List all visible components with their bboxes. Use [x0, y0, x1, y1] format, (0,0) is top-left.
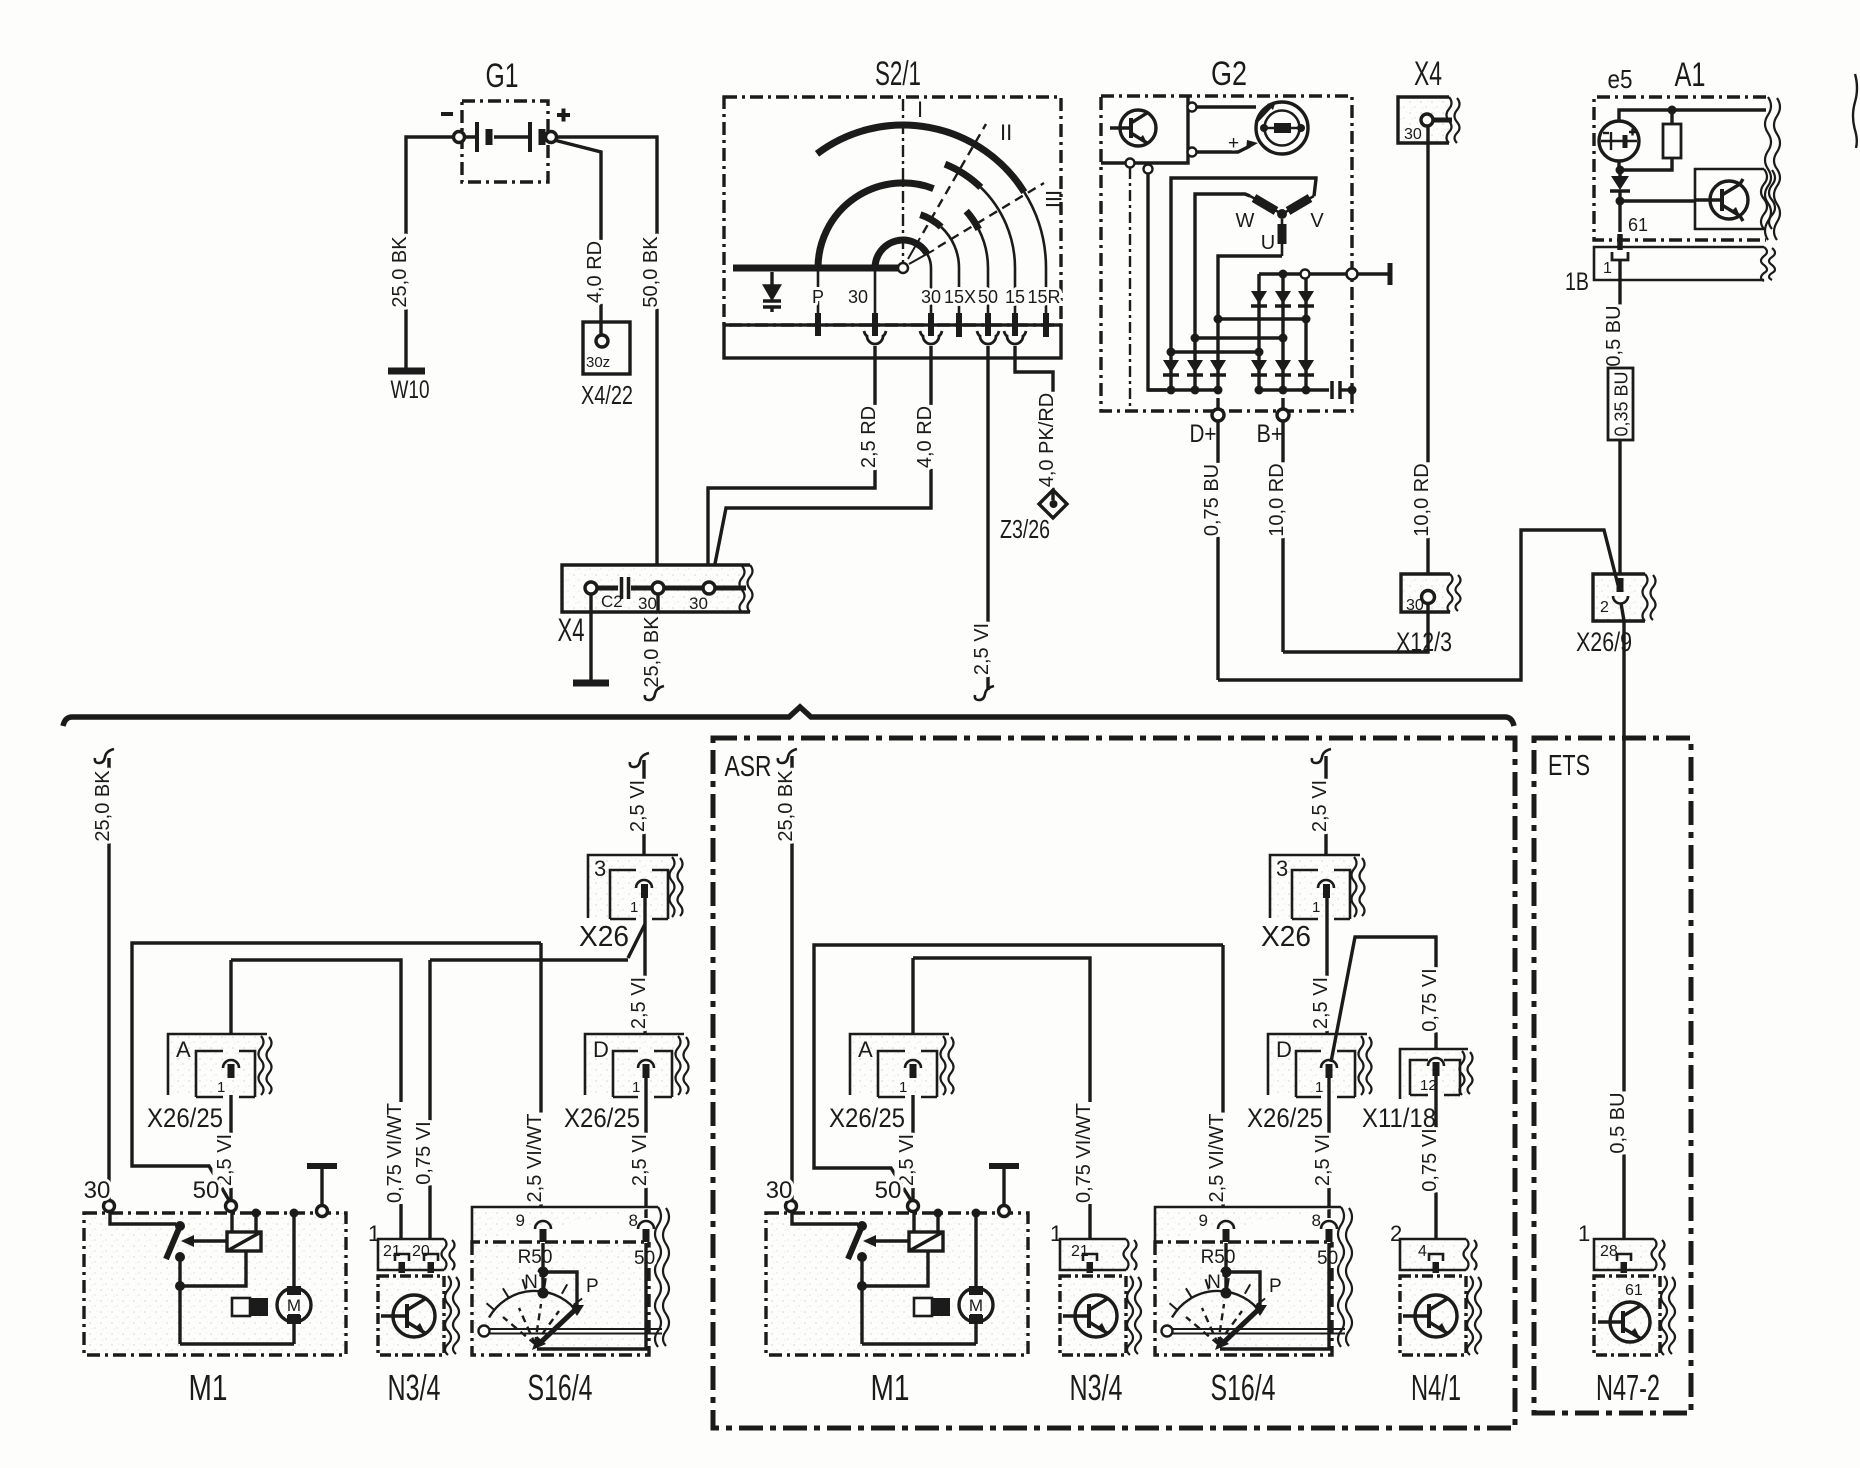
connector X12/3 torn edge: [1448, 574, 1461, 612]
connector X26/25-A pin 1: [223, 1060, 239, 1068]
svg-text:X26: X26: [579, 921, 629, 953]
svg-text:III: III: [1041, 190, 1066, 208]
wire label 4,0 RD: [583, 240, 606, 304]
svg-text:2,5 VI: 2,5 VI: [628, 977, 650, 1029]
wire label 0,75 VI: [412, 1120, 435, 1185]
svg-text:30z: 30z: [586, 354, 610, 371]
boxed wire label 0,35 BU: [1608, 368, 1633, 440]
svg-text:A: A: [858, 1037, 873, 1062]
rectifier bottom bus left (D+): [1148, 388, 1218, 391]
starter M1 asr ground stub: [1002, 1168, 1005, 1205]
stator winding W: [1250, 196, 1282, 214]
svg-text:12: 12: [1420, 1077, 1437, 1094]
rectifier bottom bus right (B+): [1259, 388, 1329, 391]
wire terminal to rotor top: [1197, 105, 1257, 108]
svg-text:0,75 VI: 0,75 VI: [1419, 968, 1441, 1031]
svg-text:S16/4: S16/4: [1211, 1367, 1276, 1408]
starter M1 ground terminal: [317, 1206, 328, 1217]
svg-text:D: D: [1276, 1037, 1292, 1062]
rotor G2 outer circle: [1256, 102, 1308, 154]
svg-text:15: 15: [1005, 287, 1025, 307]
svg-text:V: V: [1310, 210, 1324, 232]
connector X4 torn edge: [1447, 97, 1460, 143]
stator star point: [1277, 209, 1287, 219]
switch S2/1 arc r56 contact (15X): [920, 215, 941, 227]
switch S16/4 wire R50 to P contact: [543, 1272, 577, 1308]
wire U to rectifier col3: [1218, 256, 1282, 319]
rotor G2 inner circle: [1265, 111, 1300, 146]
connector X26/25-D torn edge: [676, 1036, 689, 1095]
starter M1 asr terminal 30: [786, 1201, 797, 1212]
svg-text:3: 3: [594, 856, 606, 881]
switch S16/4 gauge ticks: [487, 1278, 583, 1310]
svg-text:S16/4: S16/4: [528, 1367, 593, 1408]
bus X4 bar: [596, 586, 746, 591]
connector X26/9 torn edge: [1643, 574, 1656, 621]
svg-text:2,5 VI: 2,5 VI: [971, 623, 993, 675]
bus X4 box: [562, 565, 750, 612]
wire line1 asr right down to S16/4-9: [1221, 945, 1224, 1218]
switch S2/1 terminal P drop: [817, 268, 820, 318]
bus X4 terminal C2 ring: [585, 582, 597, 594]
wire line2a (X26/25-A to N3/4-21): [231, 960, 401, 1249]
switch S2/1 dash-dot box: [724, 97, 1061, 325]
connector X26/25-A asr box: [850, 1034, 943, 1095]
bus X4 torn edge: [740, 565, 753, 612]
wire 25,0 BK to M1-30 asr: [790, 756, 793, 1201]
svg-text:21: 21: [1071, 1243, 1089, 1260]
switch S2/1 arc r28 contact (30): [875, 240, 927, 268]
connector X26 asr box: [1270, 855, 1354, 918]
switch S16/4 asr pin row box: [1155, 1207, 1341, 1242]
svg-text:4,0 RD: 4,0 RD: [584, 241, 606, 303]
starter M1 asr motor wires: [974, 1213, 977, 1344]
terminal D+ ring: [1212, 409, 1224, 421]
connector X4/22 box: [583, 322, 630, 374]
switch S2/1 pivot: [898, 263, 908, 273]
wire label 0,75 VI lower: [1418, 1127, 1441, 1192]
svg-text:30: 30: [689, 594, 708, 613]
starter M1 bottom wire: [180, 1342, 294, 1345]
relay module N4/1 body box: [1400, 1276, 1466, 1355]
svg-text:30: 30: [848, 287, 868, 307]
svg-text:0,35 BU: 0,35 BU: [1612, 371, 1632, 436]
switch S16/4 asr needle: [1224, 1308, 1260, 1342]
wire label 0,75 VI/WT: [383, 1102, 406, 1204]
wire A1 pin down (0,5 BU): [1618, 260, 1621, 368]
switch S16/4 asr gauge dashes: [1186, 1304, 1242, 1344]
svg-text:X26/25: X26/25: [1247, 1103, 1323, 1133]
svg-text:2,5 VI: 2,5 VI: [1309, 780, 1331, 832]
wire X11/18 to N4/1 (0,75 VI): [1434, 1076, 1437, 1249]
page edge artifact top right: [1853, 74, 1857, 148]
connector X26 asr torn edge: [1352, 857, 1365, 917]
wire battery plus to X4/22 (4,0 RD): [554, 140, 601, 335]
stator winding U: [1281, 219, 1284, 256]
connector strip 1B box: [1594, 247, 1764, 280]
svg-text:G2: G2: [1211, 55, 1247, 93]
connector X4/22 terminal 30z: [596, 335, 608, 347]
connector X12/3 box: [1401, 574, 1450, 612]
switch S2/1 terminal labels: [812, 287, 1061, 307]
module N3/4 pin row box: [378, 1239, 444, 1270]
svg-text:50: 50: [978, 287, 998, 307]
switch S16/4 asr node R50: [1221, 1267, 1232, 1278]
switch S16/4 pin row box: [472, 1207, 658, 1242]
wire label 0,5 BU: [1606, 1091, 1629, 1154]
svg-text:M1: M1: [189, 1367, 228, 1408]
svg-text:8: 8: [1312, 1211, 1321, 1230]
wire X26/9 down to ETS: [1621, 603, 1624, 1089]
regulator output circle b: [1144, 165, 1153, 174]
starter M1 asr wire node to relay bottom: [862, 1251, 928, 1286]
svg-text:ETS: ETS: [1548, 750, 1590, 782]
svg-text:4,0 RD: 4,0 RD: [914, 406, 936, 468]
svg-text:3: 3: [1276, 856, 1288, 881]
switch S16/4 asr wire pin8 to bottom: [1220, 1243, 1329, 1349]
svg-text:2,5 VI: 2,5 VI: [629, 1134, 651, 1186]
svg-text:1: 1: [899, 1079, 907, 1096]
svg-text:C2: C2: [601, 592, 623, 611]
switch S2/1 arc r85 contact (50): [818, 183, 934, 268]
wire label 2,5 VI: [970, 622, 993, 676]
svg-text:2: 2: [1600, 599, 1609, 616]
svg-text:D+: D+: [1190, 420, 1217, 448]
connector X11/18 box: [1400, 1049, 1468, 1099]
svg-text:0,75 BU: 0,75 BU: [1201, 464, 1223, 536]
svg-text:1: 1: [632, 1079, 640, 1096]
wire node 61 down: [1618, 205, 1621, 232]
bus X4 terminal labels: [601, 592, 708, 613]
switch S16/4 wire pin8 to bottom: [537, 1243, 646, 1349]
divider brace line: [63, 707, 1514, 726]
svg-text:W: W: [1236, 210, 1255, 232]
svg-text:R50: R50: [1201, 1247, 1236, 1268]
wire label 25,0 BK asr: [774, 769, 797, 843]
starter M1 wire 30 to switch: [110, 1212, 176, 1224]
svg-text:ASR: ASR: [725, 751, 772, 783]
wire continuation squiggle 25,0 BK asr: [778, 749, 797, 763]
wire label 2,5 VI: [213, 1133, 236, 1187]
wire line1 right down to S16/4-9: [539, 943, 542, 1218]
svg-text:9: 9: [1199, 1211, 1208, 1230]
svg-text:4,0 PK/RD: 4,0 PK/RD: [1036, 393, 1058, 487]
wire regulator to D+ bus: [1148, 174, 1166, 390]
wire S2/1 15 to Z3/26 (4,0 PK/RD): [1015, 346, 1053, 500]
connector X26/9 box: [1593, 574, 1645, 621]
svg-text:Z3/26: Z3/26: [1000, 514, 1050, 544]
connector X12/3 terminal 30: [1422, 591, 1435, 604]
svg-text:8: 8: [629, 1211, 638, 1230]
switch S2/1 vertical axis dash-dot: [902, 99, 904, 262]
wire label 2,5 VI asr: [1308, 779, 1331, 833]
wire battery plus right (50,0 BK): [557, 137, 658, 582]
starter M1 relay actuate arrow: [193, 1239, 227, 1242]
starter M1 relay coil: [227, 1232, 261, 1251]
connector X26/9 pin 2: [1617, 578, 1624, 592]
ground below X4: [573, 680, 609, 687]
wire continuation squiggle 25,0 BK left: [95, 749, 114, 763]
switch S2/1 terminal sockets: [864, 331, 1026, 344]
starter M1 asr box: [766, 1213, 1028, 1355]
connector X26 asr pin 1: [1318, 880, 1334, 888]
svg-text:50: 50: [193, 1177, 220, 1204]
connector X11/18 pin 12: [1428, 1058, 1444, 1066]
module N3/4 asr body box: [1060, 1276, 1126, 1355]
svg-text:0,5 BU: 0,5 BU: [1607, 1092, 1629, 1153]
svg-text:X4: X4: [558, 612, 585, 648]
svg-text:P: P: [1269, 1276, 1282, 1297]
starter M1 terminal 30: [104, 1201, 115, 1212]
svg-text:D: D: [593, 1037, 609, 1062]
wire battery minus to W10: [406, 137, 454, 368]
wire label 0,75 VI upper: [1418, 967, 1441, 1032]
starter M1 asr motor M: [959, 1288, 993, 1322]
wire node to transistor box: [1620, 199, 1695, 202]
ground W10: [388, 368, 425, 375]
rotor field terminals: [1188, 103, 1197, 112]
wire label 10,0 RD: [1265, 462, 1288, 537]
svg-text:X4/22: X4/22: [581, 380, 633, 410]
wire X4 C2 to ground: [589, 594, 592, 680]
module N47-2 body box: [1594, 1276, 1660, 1355]
rectifier cross wire row1: [1171, 350, 1259, 353]
regulator transistor: [1110, 110, 1156, 146]
svg-text:10,0 RD: 10,0 RD: [1266, 463, 1288, 536]
node Z3/26 diamond: [1039, 490, 1067, 518]
svg-text:50,0 BK: 50,0 BK: [640, 236, 662, 308]
starter M1 solenoid contact block: [232, 1298, 250, 1316]
svg-text:9: 9: [516, 1211, 525, 1230]
svg-text:0,75 VI: 0,75 VI: [413, 1121, 435, 1184]
suppressor capacitor in G2: [1332, 381, 1340, 399]
wire label 0,75 VI/WT asr: [1072, 1102, 1095, 1204]
wire label 2,5 VI asr-d: [1311, 1133, 1334, 1187]
starter M1 asr relay coil: [909, 1232, 943, 1251]
battery G1 right terminal: [546, 132, 557, 143]
switch S2/1 suppressor symbol: [763, 272, 781, 312]
wire label 2,5 VI/WT asr: [1205, 1113, 1228, 1204]
switch S2/1 arc r112 contact (15): [945, 164, 981, 187]
svg-text:25,0 BK: 25,0 BK: [92, 770, 114, 842]
connector X26/25-D asr pin 1: [1321, 1060, 1337, 1068]
switch S16/4 asr gauge arc: [1172, 1291, 1261, 1318]
switch S2/1 lower connector box: [724, 325, 1061, 358]
wire label 50,0 BK: [639, 235, 662, 309]
svg-text:50: 50: [875, 1177, 902, 1204]
wire continuation squiggle 2,5 VI asr: [1312, 749, 1331, 763]
svg-text:B+: B+: [1257, 420, 1284, 448]
transistor box in A1: [1695, 169, 1764, 229]
wire X26 pin down to X26/25-D: [643, 898, 646, 1060]
bus X4 terminal 30a ring: [652, 582, 664, 594]
wire label 2,5 VI: [1309, 976, 1332, 1030]
stator winding V: [1282, 196, 1314, 214]
switch S16/4 wire pin9 to R50: [541, 1243, 544, 1272]
starter M1 wire node to relay bottom: [180, 1251, 246, 1286]
svg-text:4: 4: [1418, 1243, 1427, 1260]
svg-text:S2/1: S2/1: [875, 55, 921, 93]
wire label 4,0 PK/RD: [1035, 392, 1058, 488]
starter M1 wire lever to bottom: [178, 1257, 181, 1344]
wire B+ drop: [1281, 398, 1284, 652]
svg-text:P: P: [586, 1276, 599, 1297]
wire X4-30 to X12/3 (10,0 RD): [1426, 126, 1429, 590]
starter M1 terminal 50: [226, 1201, 237, 1212]
svg-text:1: 1: [1578, 1221, 1590, 1246]
starter M1 asr motor terminal node: [972, 1209, 981, 1218]
wire label 25,0 BK: [640, 615, 663, 689]
svg-text:II: II: [1000, 120, 1012, 145]
wire 2,5 VI to X26 pin asr: [1324, 756, 1327, 884]
svg-text:25,0 BK: 25,0 BK: [389, 236, 411, 308]
switch S16/4 asr contact P pad: [1253, 1305, 1267, 1316]
svg-text:M: M: [287, 1296, 301, 1315]
svg-text:2,5 VI: 2,5 VI: [1310, 977, 1332, 1029]
rotor rotation arrow: [1256, 105, 1272, 122]
switch S16/4 body box: [472, 1242, 649, 1355]
switch S16/4 asr torn edge: [1338, 1207, 1352, 1347]
module N3/4 body box: [378, 1276, 444, 1355]
wire X26/25-D asr to S16/4-8 (2,5 VI): [1327, 1078, 1330, 1218]
connector X26 left box: [588, 855, 672, 918]
starter M1 asr switch contact bottom: [857, 1252, 867, 1262]
svg-text:X4: X4: [1414, 55, 1442, 93]
bus X4 capacitor C2: [622, 577, 629, 599]
svg-text:30: 30: [1406, 597, 1424, 614]
battery G1 plus sign: [557, 109, 570, 122]
switch S16/4 torn edge: [655, 1207, 669, 1347]
starter M1 asr solenoid contact block: [914, 1298, 932, 1316]
relay module N4/1 pin row box: [1400, 1239, 1466, 1270]
wire 2,5 VI to X26 pin: [642, 760, 645, 884]
switch S16/4 needle: [541, 1308, 577, 1342]
svg-text:15X: 15X: [944, 287, 976, 307]
wire continuation squiggle 2,5 VI: [975, 686, 994, 700]
terminal B+ ring: [1277, 409, 1289, 421]
wire X26/25-A asr drop (2,5 VI): [911, 958, 914, 1201]
connector X26/25-D left box: [585, 1034, 678, 1095]
ground tab right of G2: [1347, 269, 1358, 280]
svg-text:28: 28: [1600, 1243, 1618, 1260]
charge lamp e5: [1599, 121, 1639, 161]
svg-text:21: 21: [383, 1243, 401, 1260]
starter M1 asr coil terminal node: [934, 1209, 943, 1218]
svg-text:X26: X26: [1261, 921, 1311, 953]
svg-text:M1: M1: [871, 1367, 910, 1408]
svg-text:A: A: [176, 1037, 191, 1062]
svg-text:0,75 VI: 0,75 VI: [1419, 1128, 1441, 1191]
starter M1 asr relay actuate arrow: [875, 1239, 909, 1242]
starter M1 asr wire 30 to switch: [792, 1212, 858, 1224]
starter M1 asr wire lever to bottom: [860, 1257, 863, 1344]
svg-text:0,5 BU: 0,5 BU: [1603, 305, 1625, 366]
svg-text:2,5 VI: 2,5 VI: [627, 780, 649, 832]
starter M1 asr ground terminal: [999, 1206, 1010, 1217]
svg-text:2,5 VI/WT: 2,5 VI/WT: [524, 1114, 546, 1203]
wire lamp top bus: [1619, 110, 1766, 121]
svg-text:N47-2: N47-2: [1596, 1367, 1660, 1408]
rectifier main diodes row: [1163, 360, 1314, 373]
svg-text:N4/1: N4/1: [1411, 1367, 1461, 1408]
switch S2/1 terminal 30a drop: [874, 268, 877, 318]
svg-text:2,5 VI: 2,5 VI: [1312, 1134, 1334, 1186]
svg-text:30: 30: [638, 594, 657, 613]
rectifier exciter top bus: [1259, 272, 1347, 275]
svg-text:0,75 VI/WT: 0,75 VI/WT: [1073, 1103, 1095, 1203]
wire 25,0 BK to M1-30: [107, 758, 110, 1201]
starter M1 asr switch lever: [848, 1226, 862, 1259]
module N3/4 asr pin row box: [1060, 1239, 1126, 1270]
connector X26 pin 1: [636, 880, 652, 888]
wire label 4,0 RD: [913, 405, 936, 469]
wire label 2,5 RD: [857, 405, 880, 469]
switch S16/4 asr pointer rod: [1172, 1329, 1345, 1334]
node below lamp: [1617, 161, 1620, 170]
starter M1 motor wires: [292, 1213, 295, 1344]
connector X26 torn edge: [670, 857, 683, 917]
starter M1 switch contact bottom: [175, 1252, 185, 1262]
ASR dash-dot frame: [713, 738, 1515, 1428]
rectifier exciter diodes row: [1251, 291, 1314, 304]
switch S16/4 gauge arc: [489, 1291, 578, 1318]
pin 61 at A1 edge: [1617, 234, 1623, 250]
wire W to rectifier col2: [1195, 194, 1250, 338]
battery G1 dash-dot box: [462, 101, 548, 182]
ETS dash-dot frame: [1534, 738, 1691, 1413]
svg-text:X26/25: X26/25: [829, 1103, 905, 1133]
wire D+ to X26/9: [1218, 530, 1618, 680]
switch S2/1 arc r143 contact (15R): [817, 125, 1024, 192]
wire 0,5 BU to N47-2: [1622, 1089, 1625, 1249]
wire label 2,5 VI: [628, 1133, 651, 1187]
starter M1 switch lever: [166, 1226, 180, 1259]
switch S2/1 position III dashed radial: [938, 183, 1044, 247]
wire terminal to rotor brush +: [1197, 146, 1251, 152]
svg-text:30: 30: [84, 1177, 111, 1204]
svg-text:N3/4: N3/4: [1070, 1367, 1123, 1408]
svg-text:X26/25: X26/25: [147, 1103, 223, 1133]
wire label 10,0 RD: [1410, 462, 1433, 537]
rectifier right columns verticals: [1259, 274, 1306, 390]
battery G1 cells: [465, 122, 547, 152]
starter M1 asr terminal 50: [908, 1201, 919, 1212]
svg-text:25,0 BK: 25,0 BK: [641, 616, 663, 688]
svg-text:30: 30: [766, 1177, 793, 1204]
starter M1 asr node: [857, 1281, 867, 1291]
connector X26/25-A left box: [168, 1034, 261, 1095]
wire continuation squiggle 2,5 VI left: [630, 753, 649, 767]
wire label 2,5 VI/WT: [523, 1113, 546, 1204]
module N47-2 pin row box: [1594, 1239, 1654, 1270]
connector X26/25-D asr box: [1268, 1034, 1361, 1095]
wire label 0,75 BU: [1200, 463, 1223, 537]
svg-text:61: 61: [1625, 1282, 1643, 1299]
wire below label to X26/9: [1618, 440, 1621, 578]
svg-text:I: I: [917, 97, 923, 122]
switch S16/4 pointer rod: [489, 1329, 662, 1334]
svg-text:1: 1: [630, 899, 638, 916]
wire S2/1 30b to X4 bus (4,0 RD): [711, 346, 931, 584]
bus X4 terminal 30b ring: [703, 582, 715, 594]
diode in A1: [1618, 170, 1621, 176]
starter M1 relay coil wires up: [232, 1211, 256, 1232]
switch S16/4 asr body box: [1155, 1242, 1332, 1355]
svg-text:R50: R50: [518, 1247, 553, 1268]
relay module N4/1 transistor: [1403, 1295, 1457, 1337]
connector X4 box: [1398, 97, 1449, 143]
switch S16/4 gauge dashes: [503, 1304, 559, 1344]
